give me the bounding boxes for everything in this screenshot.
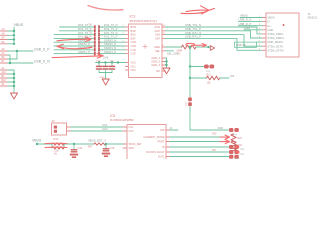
wire R14 to arrow	[196, 46, 210, 48]
svg-text:PORT: PORT	[158, 141, 165, 144]
svg-text:USB_RX1_P: USB_RX1_P	[185, 35, 201, 39]
svg-text:USB_TX1_P: USB_TX1_P	[185, 27, 201, 31]
resistor R13b	[52, 147, 64, 149]
pin labels A6 A7 B6 B7	[2, 48, 6, 63]
annotation top right arrow	[181, 6, 215, 14]
R15 R16 labels	[212, 133, 243, 152]
svg-text:USB_TX1_N: USB_TX1_N	[185, 23, 201, 27]
svg-text:R15: R15	[238, 137, 243, 140]
junction dot VBUS bottom	[36, 143, 38, 145]
wire CC1	[71, 126, 123, 128]
annotation top left squiggle	[88, 6, 123, 11]
wire RCONN row	[170, 151, 229, 153]
junction dots IC3 gnd	[165, 60, 167, 66]
svg-text:100n: 100n	[96, 60, 102, 62]
IC3 pin numbers right	[163, 25, 166, 47]
wire A1P to J1 SSTX+	[166, 38, 263, 50]
svg-text:CC2: CC2	[129, 130, 135, 133]
svg-text:USB_D_P: USB_D_P	[239, 22, 252, 26]
resistor R11	[207, 76, 220, 80]
wire USB_D_N row	[7, 62, 33, 64]
svg-text:R17: R17	[212, 149, 217, 152]
ground symbol IC3	[163, 68, 170, 74]
svg-text:GND: GND	[244, 26, 250, 30]
IC5 pin stubs right	[166, 130, 170, 157]
wire J1 D+	[239, 25, 263, 27]
IC3 pin names right	[151, 25, 160, 73]
annotation arrow cluster 1	[220, 135, 230, 139]
ground symbol under caps	[102, 79, 109, 85]
R11 labels	[207, 73, 212, 84]
svg-text:OUT1: OUT1	[158, 156, 165, 159]
IC3 body	[129, 24, 163, 78]
wire USB_D_P row	[7, 50, 33, 52]
ground symbol left	[11, 93, 18, 99]
junction dot DEN net	[189, 46, 210, 48]
IC3 pin names left	[131, 25, 137, 72]
IC5 body	[127, 125, 166, 165]
svg-text:#D3S53212RK3TQ1: #D3S53212RK3TQ1	[130, 19, 158, 23]
wire 2V5 rail	[96, 62, 126, 64]
wire IC3 GND pins	[166, 58, 167, 67]
solder jumper SJ5	[229, 150, 239, 154]
IC5 pin names left	[129, 126, 143, 150]
svg-text:1%: 1%	[54, 154, 57, 156]
wire CURRENT_MODE row	[170, 136, 227, 138]
wire R12 out	[106, 143, 123, 145]
annotation arrow cluster 2	[220, 140, 230, 144]
wire DIR vertical	[189, 47, 191, 130]
xref flag GND	[235, 42, 257, 47]
junction dots VBUS	[13, 30, 15, 45]
svg-text:VBUS: VBUS	[240, 14, 248, 18]
capacitor C12	[103, 63, 108, 73]
R13 values	[54, 151, 59, 156]
wire SEL stub	[166, 50, 174, 52]
wire J1 GND_DRAIN	[257, 41, 263, 43]
wire to R11	[190, 77, 207, 79]
svg-text:J2: J2	[52, 119, 56, 123]
arrow symbol right	[210, 46, 214, 51]
connector pin stubs GND group	[0, 70, 7, 86]
svg-text:240R: 240R	[177, 50, 183, 53]
svg-text:CC2: CC2	[102, 127, 108, 131]
pin labels A4 A9 B4 B9	[2, 28, 6, 44]
wire J1 D-	[239, 21, 263, 23]
svg-text:TP10: TP10	[234, 158, 240, 159]
capacitor C11	[97, 63, 102, 73]
J2 pin stubs	[67, 127, 72, 131]
net labels USB TX RX	[185, 23, 201, 38]
wire VBUS vertical	[13, 27, 15, 44]
svg-text:CURRENT_MODE: CURRENT_MODE	[143, 136, 164, 139]
resistor R16 vertical	[231, 141, 236, 151]
svg-text:1.5M: 1.5M	[54, 151, 59, 153]
solder jumper SJ3	[229, 128, 239, 132]
svg-text:B12: B12	[2, 79, 7, 82]
svg-text:USB_D_P: USB_D_P	[34, 48, 50, 52]
capacitor C14	[71, 144, 77, 152]
svg-text:100n: 100n	[110, 60, 116, 62]
resistor R15 vertical	[231, 134, 236, 144]
J1 pin numbers	[259, 16, 261, 51]
capacitor column C2-C9 plates	[94, 25, 100, 55]
svg-text:2V5: 2V5	[103, 56, 109, 60]
annotation arrow right 1	[57, 37, 91, 42]
net labels left of caps	[78, 23, 92, 54]
wire mid rows left of caps	[54, 27, 94, 54]
IC5 pin names right	[143, 129, 165, 159]
IC5 pin stubs left	[123, 127, 127, 148]
J1 body	[266, 13, 299, 57]
R13 joining verticals	[52, 144, 64, 148]
wire mid rows right of caps	[100, 27, 126, 54]
ground symbol C14	[70, 154, 78, 158]
wire J1 GND	[244, 29, 263, 31]
svg-text:IC3: IC3	[130, 15, 136, 19]
svg-text:VBUS_DET: VBUS_DET	[129, 143, 143, 146]
svg-text:ID: ID	[162, 146, 165, 149]
IC3 right pin stubs	[162, 27, 166, 71]
red dot mark	[283, 24, 285, 26]
wire A7 to D_N	[7, 55, 10, 63]
solder jumper SJ4	[229, 145, 239, 149]
resistor R14	[182, 45, 196, 49]
wire cap bottom rail	[99, 73, 112, 79]
wire A1N to J1 SSTX-	[166, 35, 263, 47]
wire CC2	[71, 130, 123, 132]
IC3 center cross	[143, 45, 147, 49]
resistor R12	[94, 143, 106, 145]
junction dot C15	[105, 143, 107, 145]
capacitor C15	[103, 144, 109, 151]
solder jumper SJ6	[229, 155, 239, 159]
R14 values	[177, 50, 183, 56]
wire B6 to D_P	[7, 51, 17, 59]
net labels right of caps	[104, 23, 118, 54]
wire AON to J1 SSRX-	[166, 27, 263, 34]
svg-text:2913121: 2913121	[308, 17, 318, 20]
junction dot C14	[73, 143, 75, 145]
svg-text:VBUS: VBUS	[14, 23, 24, 27]
wire GND vertical	[13, 70, 15, 92]
wire VBUS to divider	[37, 143, 52, 145]
resistor R13a	[52, 143, 64, 145]
svg-text:VBUS_DET_3: VBUS_DET_3	[88, 139, 106, 143]
wire DIR stub	[170, 129, 178, 131]
annotation arrow left	[57, 44, 92, 49]
solder jumper SJ1	[204, 65, 214, 69]
IC3 left pin stubs	[126, 27, 129, 70]
wire PORT row	[170, 141, 227, 143]
wire GND group rows	[7, 70, 14, 86]
svg-text:J1: J1	[308, 12, 312, 16]
svg-text:CC1: CC1	[102, 123, 108, 127]
junction dots vertical	[189, 65, 191, 79]
svg-text:#USB3212RWBR: #USB3212RWBR	[110, 118, 134, 122]
svg-text:DIR: DIR	[160, 129, 165, 132]
svg-text:USB_D_N: USB_D_N	[239, 18, 252, 22]
SJ labels	[234, 149, 245, 160]
connector pin stubs VBUS group	[0, 31, 7, 44]
wire to SJ1	[190, 66, 204, 68]
cap values	[96, 60, 115, 62]
wire ID row	[170, 146, 229, 148]
J1 pin stubs	[263, 18, 267, 51]
svg-text:USB_RX1_N: USB_RX1_N	[185, 31, 201, 35]
svg-text:RCONN_FAULT: RCONN_FAULT	[146, 151, 165, 154]
svg-text:CC1: CC1	[129, 126, 135, 129]
wire divider mid	[64, 143, 94, 145]
pin labels GND group	[2, 67, 7, 86]
J1 pin names	[268, 16, 285, 53]
junction dots rail	[98, 61, 119, 63]
svg-text:IC5: IC5	[110, 114, 115, 118]
junction dots GND group	[13, 73, 15, 87]
capacitor C13	[110, 63, 115, 73]
J2 pads	[54, 126, 57, 133]
connector pin stubs D group	[0, 51, 7, 63]
wire OUT row	[170, 156, 229, 158]
capacitor designators	[89, 23, 104, 52]
wire DIR row	[190, 129, 229, 131]
svg-text:USB_D_N: USB_D_N	[34, 60, 50, 64]
annotation strokes R13	[45, 143, 67, 147]
annotation arrow right 2	[52, 54, 103, 59]
IC3 left pin numbers	[123, 25, 125, 50]
svg-text:VBUS: VBUS	[32, 138, 42, 142]
svg-text:R11: R11	[207, 73, 212, 76]
wire AOP to J1 SSRX+	[166, 31, 263, 38]
J2 body	[52, 123, 67, 135]
wire J1 VBUS	[240, 17, 263, 19]
junction dots D group	[9, 50, 18, 64]
svg-text:R15: R15	[212, 133, 217, 136]
wire DEN to R14	[166, 46, 182, 48]
wire VBUS pin rows	[7, 31, 14, 44]
annotation marks SJ cluster	[236, 146, 240, 154]
wire R11 out	[220, 77, 229, 79]
svg-text:VDD: VDD	[129, 147, 134, 150]
solder jumper SJ2 on vertical	[188, 97, 192, 106]
annotation loop arrow R14	[186, 43, 207, 47]
svg-text:4R7: 4R7	[88, 145, 93, 148]
ground symbol C15	[102, 153, 110, 157]
svg-text:A12: A12	[2, 71, 7, 74]
